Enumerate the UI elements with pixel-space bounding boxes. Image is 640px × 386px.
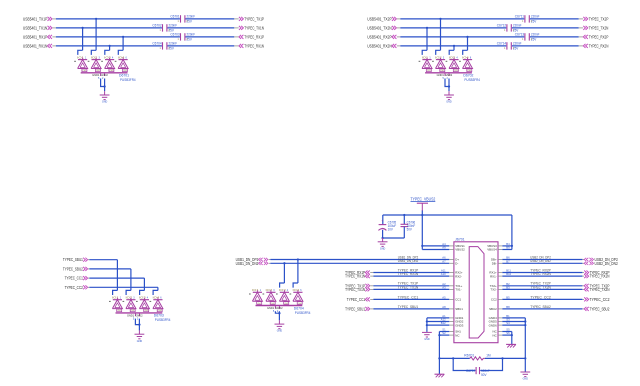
svg-text:SBU2: SBU2	[489, 307, 497, 311]
wire USB2_DN_DP2	[502, 259, 582, 261]
port TYPEC_TX2N	[582, 287, 609, 292]
svg-text:CH4: CH4	[467, 70, 471, 72]
port USB5401_RX2N	[367, 43, 400, 48]
svg-text:CH3: CH3	[284, 303, 288, 305]
ground	[422, 332, 432, 341]
svg-text:TYPEC_TX1P: TYPEC_TX1P	[244, 16, 264, 21]
svg-text:GND: GND	[424, 338, 430, 341]
svg-text:RX1-: RX1-	[490, 274, 497, 278]
esd diode array D6702 PUSB3FR4	[419, 55, 480, 82]
svg-text:TYPEC_SBU1: TYPEC_SBU1	[345, 306, 365, 311]
svg-text:GND6: GND6	[489, 323, 497, 327]
svg-text:A8: A8	[442, 305, 446, 309]
svg-text:D6704: D6704	[294, 306, 304, 310]
svg-text:CH3: CH3	[144, 310, 148, 312]
resistor R6701 1M	[464, 354, 490, 360]
svg-text:IO4: IO4	[118, 55, 125, 59]
svg-text:IO3: IO3	[104, 55, 111, 59]
port TYPEC_RX1N	[345, 274, 373, 279]
svg-text:A2: A2	[442, 282, 446, 286]
svg-text:CC1: CC1	[455, 298, 461, 302]
wire SHIELD-GND	[439, 357, 525, 370]
port TYPEC_CC1	[65, 276, 90, 281]
net label TYPEC_CC1	[398, 295, 419, 299]
wire TYPEC_SBU2	[89, 268, 130, 270]
svg-text:GND: GND	[446, 101, 452, 104]
capacitor C6701 220nF 25V	[170, 14, 195, 23]
svg-text:TYPEC_RX1N: TYPEC_RX1N	[244, 43, 264, 48]
svg-text:IO2: IO2	[435, 55, 442, 59]
ground	[275, 320, 285, 332]
port USB1_DN_DN2	[236, 261, 271, 266]
svg-text:TYPEC_TX2P: TYPEC_TX2P	[589, 16, 609, 21]
svg-text:IO3: IO3	[449, 55, 456, 59]
wire TYPEC_TX1P	[373, 285, 449, 287]
svg-text:C6704: C6704	[152, 41, 161, 45]
svg-text:A9: A9	[442, 246, 446, 250]
svg-text:USB5401_TX1N: USB5401_TX1N	[23, 25, 47, 30]
esd diode array D6704 PUSB3FR4	[249, 288, 310, 315]
capacitor C6703 220nF 25V	[170, 32, 195, 41]
svg-text:C6702: C6702	[152, 23, 161, 27]
wire GND right bus	[502, 318, 526, 372]
svg-text:TYPEC_CC1: TYPEC_CC1	[347, 297, 366, 302]
wire	[436, 19, 441, 55]
svg-text:GND: GND	[102, 101, 108, 104]
wire	[403, 227, 405, 238]
svg-text:A3: A3	[442, 286, 446, 290]
wire SHIELD	[438, 332, 449, 374]
svg-text:TYPEC_SBU1: TYPEC_SBU1	[63, 257, 83, 262]
svg-text:B6: B6	[506, 256, 510, 260]
svg-text:C6714: C6714	[497, 41, 506, 45]
svg-text:B4: B4	[506, 242, 510, 246]
svg-text:C6712: C6712	[497, 23, 506, 27]
svg-text:IO2: IO2	[266, 288, 273, 292]
net label TYPEC_TX1P	[398, 282, 419, 286]
svg-text:C6713: C6713	[515, 32, 524, 36]
port TYPEC_RX1N	[234, 43, 264, 48]
ground	[378, 238, 388, 250]
svg-text:220nF: 220nF	[169, 23, 178, 27]
svg-text:NC: NC	[455, 333, 459, 337]
wire	[101, 79, 106, 92]
wire	[153, 287, 158, 295]
svg-text:USB1_DN_DN2: USB1_DN_DN2	[398, 259, 419, 263]
svg-text:USB5401_TX2P: USB5401_TX2P	[367, 16, 392, 21]
port USB1_DN_DP2	[236, 257, 271, 262]
net label TYPEC_TX2N	[530, 285, 551, 289]
net label USB1_DN_DP2	[398, 255, 419, 259]
svg-text:CH2: CH2	[440, 70, 444, 72]
net label USB2_DN_DP2	[530, 255, 551, 259]
port USB5401_TX1P	[23, 16, 56, 21]
svg-text:IO4: IO4	[293, 288, 300, 292]
wire USB5401_TX2N	[400, 27, 578, 29]
svg-text:USB5401_RX1N: USB5401_RX1N	[23, 43, 47, 48]
wire USB5401_RX1N	[56, 45, 234, 47]
port TYPEC_RX2N	[582, 274, 609, 279]
wire	[422, 28, 427, 55]
wire TYPEC_CC1	[89, 277, 144, 279]
svg-text:IO2: IO2	[91, 55, 98, 59]
svg-text:IO3: IO3	[279, 288, 286, 292]
svg-text:DB-: DB-	[492, 262, 497, 266]
port TYPEC_TX1N	[234, 25, 264, 30]
svg-text:C6703: C6703	[170, 32, 179, 36]
svg-text:CH1: CH1	[257, 303, 261, 305]
capacitor C6705 100uF	[378, 219, 396, 231]
wire USB2_DN_DN2	[502, 262, 582, 264]
capacitor C6702 220nF 25V	[152, 23, 177, 32]
svg-text:TYPEC_TX1N: TYPEC_TX1N	[244, 25, 264, 30]
wire	[91, 19, 96, 55]
svg-text:CH1: CH1	[427, 70, 431, 72]
wire	[118, 37, 123, 55]
svg-text:PUSB3FR4: PUSB3FR4	[155, 318, 171, 322]
net label TYPEC_RX1N	[398, 272, 419, 276]
port USB5401_RX1N	[23, 43, 56, 48]
svg-text:TYPEC_SBU2: TYPEC_SBU2	[590, 306, 610, 311]
port USB5401_RX2P	[367, 34, 400, 39]
svg-text:USB5401_RX2P: USB5401_RX2P	[367, 34, 391, 39]
capacitor C6714 220nF 25V	[497, 41, 522, 50]
wire USB5401_RX1P	[56, 36, 234, 38]
wire TYPEC_TX2P	[502, 285, 582, 287]
port TYPEC_SBU1	[345, 306, 373, 311]
wire TYPEC_RX2P	[502, 272, 582, 274]
svg-text:TYPEC_RX1N: TYPEC_RX1N	[345, 274, 365, 279]
wire	[445, 79, 450, 92]
svg-text:GND: GND	[380, 247, 386, 250]
ground	[100, 91, 110, 103]
wire TYPEC_CC2	[502, 298, 582, 300]
svg-text:B5: B5	[506, 296, 510, 300]
svg-text:220nF: 220nF	[513, 23, 522, 27]
port USB5401_TX1N	[23, 25, 56, 30]
connector J6701 USB Type-C	[441, 238, 512, 343]
port TYPEC_TX1P	[345, 283, 373, 288]
svg-text:TX2-: TX2-	[490, 288, 496, 292]
wire TYPEC_RX1P	[373, 272, 449, 274]
svg-text:USB1_DN_DN2: USB1_DN_DN2	[236, 261, 259, 266]
wire	[105, 46, 110, 55]
port TYPEC_RX2N	[579, 43, 609, 48]
wire	[78, 28, 83, 55]
port USB5401_TX2N	[367, 25, 400, 30]
svg-text:220nF: 220nF	[531, 14, 540, 18]
svg-text:IO2: IO2	[126, 296, 133, 300]
svg-text:USB5401_RX1P: USB5401_RX1P	[23, 34, 47, 39]
svg-text:IO3: IO3	[139, 296, 146, 300]
wire GND left bus	[426, 318, 450, 332]
svg-text:R6701: R6701	[464, 354, 474, 358]
wire	[280, 263, 285, 287]
svg-text:GND3: GND3	[455, 323, 463, 327]
port TYPEC_SBU2	[582, 306, 610, 311]
wire TYPEC_CC2	[89, 286, 157, 288]
svg-text:CH2: CH2	[96, 70, 100, 72]
port TYPEC_CC2	[65, 285, 90, 290]
svg-text:PUSB3FR4: PUSB3FR4	[295, 311, 311, 315]
svg-text:IO1: IO1	[112, 296, 119, 300]
port TYPEC_RX2P	[582, 270, 609, 275]
svg-text:D-: D-	[455, 262, 458, 266]
svg-text:CC2: CC2	[491, 298, 497, 302]
svg-text:CH1: CH1	[83, 70, 87, 72]
port USB2_DN_DP2	[582, 257, 618, 262]
port TYPEC_TX2N	[579, 25, 609, 30]
svg-text:220nF: 220nF	[187, 32, 196, 36]
svg-text:B10: B10	[506, 272, 511, 276]
net label TYPEC_RX2N	[530, 272, 551, 276]
svg-text:GND: GND	[277, 330, 283, 333]
wire USB1_DN_DN2	[270, 262, 449, 264]
svg-text:D6701: D6701	[119, 74, 129, 78]
svg-text:B11: B11	[506, 269, 511, 273]
wire	[381, 230, 404, 239]
svg-text:D6702: D6702	[463, 74, 473, 78]
svg-text:D6703: D6703	[154, 314, 164, 318]
svg-text:C6711: C6711	[515, 14, 524, 18]
port USB5401_RX1P	[23, 34, 56, 39]
ground	[444, 91, 454, 103]
net label USB1_DN_DN2	[398, 259, 419, 263]
svg-text:B3: B3	[506, 286, 510, 290]
svg-text:B7: B7	[506, 259, 510, 263]
svg-text:TYPEC_CC2: TYPEC_CC2	[530, 295, 551, 299]
capacitor C6713 220nF 25V	[515, 32, 540, 41]
svg-text:PUSB3FR4: PUSB3FR4	[120, 78, 136, 82]
svg-text:USB2_DN_DN2: USB2_DN_DN2	[595, 261, 619, 266]
svg-text:USB5401_TX2N: USB5401_TX2N	[367, 25, 391, 30]
esd diode array D6703 PUSB3FR4	[109, 296, 170, 323]
chassis ground	[435, 374, 445, 377]
svg-text:CH2: CH2	[131, 310, 135, 312]
svg-text:CH4: CH4	[123, 70, 127, 72]
svg-text:220nF: 220nF	[513, 41, 522, 45]
svg-text:50V: 50V	[407, 228, 413, 232]
wire TYPEC_VBUS2 rail	[383, 211, 513, 250]
svg-text:GND: GND	[137, 340, 143, 343]
svg-text:TYPEC_TX2N: TYPEC_TX2N	[590, 287, 610, 292]
svg-text:TYPEC_CC1: TYPEC_CC1	[65, 276, 84, 281]
port TYPEC_RX1P	[234, 34, 264, 39]
svg-text:CH2: CH2	[271, 303, 275, 305]
svg-text:TYPEC_TX2N: TYPEC_TX2N	[589, 25, 609, 30]
wire USB5401_TX2P	[400, 18, 578, 20]
port TYPEC_RX2P	[579, 34, 609, 39]
svg-text:TYPEC_VBUS2: TYPEC_VBUS2	[411, 196, 436, 201]
svg-text:TX1-: TX1-	[455, 288, 461, 292]
svg-text:TYPEC_SBU2: TYPEC_SBU2	[63, 266, 83, 271]
power TYPEC_VBUS2	[411, 196, 436, 211]
svg-text:IO1: IO1	[422, 55, 429, 59]
wire USB5401_RX2P	[400, 36, 578, 38]
wire USB1_DN_DP2	[270, 258, 449, 260]
svg-text:TYPEC_CC2: TYPEC_CC2	[65, 285, 84, 290]
svg-text:220nF: 220nF	[169, 41, 178, 45]
wire TYPEC_TX2N	[502, 288, 582, 290]
svg-text:B9: B9	[506, 246, 510, 250]
svg-text:USB5401_RX2N: USB5401_RX2N	[367, 43, 391, 48]
svg-text:CH3: CH3	[454, 70, 458, 72]
capacitor C6712 220nF 25V	[497, 23, 522, 32]
net label USB2_DN_DN2	[530, 259, 551, 263]
net label TYPEC_SBU2	[530, 305, 551, 309]
net label TYPEC_TX1N	[398, 285, 419, 289]
svg-text:50V: 50V	[481, 373, 487, 377]
svg-text:TYPEC_TX1N: TYPEC_TX1N	[345, 287, 365, 292]
svg-text:C6701: C6701	[170, 14, 179, 18]
ground	[135, 330, 145, 342]
wire USB5401_RX2N	[400, 45, 578, 47]
port TYPEC_TX2P	[582, 283, 609, 288]
svg-text:USB5401_TX1P: USB5401_TX1P	[23, 16, 48, 21]
svg-text:B8: B8	[506, 305, 510, 309]
net label TYPEC_TX2P	[530, 282, 551, 286]
svg-text:+: +	[381, 219, 383, 223]
svg-text:CH3: CH3	[110, 70, 114, 72]
ground	[520, 372, 530, 381]
svg-text:C6707: C6707	[466, 369, 475, 373]
port TYPEC_CC2	[582, 297, 610, 302]
svg-text:VBUS2: VBUS2	[455, 248, 465, 252]
svg-text:B2: B2	[506, 282, 510, 286]
svg-text:CH4: CH4	[298, 303, 302, 305]
wire TYPEC_RX2N	[502, 275, 582, 277]
net label TYPEC_SBU1	[398, 305, 419, 309]
wire USB5401_TX1P	[56, 18, 234, 20]
svg-text:A6: A6	[442, 256, 446, 260]
port TYPEC_RX1P	[345, 270, 373, 275]
capacitor C6704 220nF 25V	[152, 41, 177, 50]
wire USB5401_TX1N	[56, 27, 234, 29]
wire TYPEC_SBU1	[373, 308, 449, 310]
wire TYPEC_TX1N	[373, 288, 449, 290]
port USB5401_TX2P	[367, 16, 400, 21]
port TYPEC_TX1N	[345, 287, 373, 292]
svg-text:SBU1: SBU1	[455, 307, 463, 311]
svg-text:TYPEC_RX1P: TYPEC_RX1P	[244, 34, 264, 39]
capacitor C6707 100nF	[466, 367, 490, 377]
svg-text:VBUS4: VBUS4	[487, 248, 497, 252]
wire	[113, 260, 118, 295]
svg-text:CH4: CH4	[158, 310, 162, 312]
svg-text:A4: A4	[442, 242, 446, 246]
svg-text:IO1: IO1	[77, 55, 84, 59]
chassis ground	[506, 344, 516, 347]
svg-text:GND: GND	[523, 378, 529, 381]
wire	[463, 37, 468, 55]
svg-text:220nF: 220nF	[531, 32, 540, 36]
port TYPEC_CC1	[347, 297, 374, 302]
wire	[140, 278, 145, 295]
svg-text:TYPEC_RX2N: TYPEC_RX2N	[590, 274, 610, 279]
svg-text:J6701: J6701	[455, 238, 465, 242]
svg-text:RX2-: RX2-	[455, 274, 462, 278]
port TYPEC_SBU1	[63, 257, 90, 262]
svg-text:IO1: IO1	[252, 288, 259, 292]
port TYPEC_SBU2	[63, 266, 90, 271]
wire TYPEC_CC1	[373, 298, 449, 300]
wire	[449, 46, 454, 55]
svg-text:A11: A11	[441, 269, 446, 273]
wire TYPEC_SBU1	[89, 259, 117, 261]
svg-text:TYPEC_RX2P: TYPEC_RX2P	[589, 34, 609, 39]
svg-text:NC: NC	[493, 333, 497, 337]
port TYPEC_TX1P	[234, 16, 264, 21]
svg-text:CH1: CH1	[117, 310, 121, 312]
wire	[275, 311, 280, 320]
wire	[293, 260, 298, 288]
net label TYPEC_CC2	[530, 295, 551, 299]
net label TYPEC_RX1P	[398, 268, 419, 272]
capacitor C6711 220nF 25V	[515, 14, 540, 23]
svg-text:TYPEC_SBU1: TYPEC_SBU1	[398, 305, 419, 309]
svg-text:10V: 10V	[388, 228, 394, 232]
svg-text:TYPEC_CC2: TYPEC_CC2	[590, 297, 610, 302]
svg-text:TYPEC_CC1: TYPEC_CC1	[398, 295, 419, 299]
net label TYPEC_RX2P	[530, 268, 551, 272]
svg-text:A7: A7	[442, 259, 446, 263]
svg-text:PUSB3FR4: PUSB3FR4	[464, 78, 480, 82]
wire TYPEC_RX1N	[373, 275, 449, 277]
svg-text:TYPEC_SBU2: TYPEC_SBU2	[530, 305, 551, 309]
svg-text:A10: A10	[441, 272, 446, 276]
svg-text:A5: A5	[442, 296, 446, 300]
wire	[502, 332, 513, 345]
svg-text:IO4: IO4	[153, 296, 160, 300]
svg-text:220nF: 220nF	[187, 14, 196, 18]
wire TYPEC_SBU2	[502, 308, 582, 310]
esd diode array D6701 PUSB3FR4	[74, 55, 135, 82]
port TYPEC_TX2P	[579, 16, 609, 21]
wire	[135, 319, 140, 331]
capacitor C6706 100nF	[401, 220, 416, 231]
wire	[126, 269, 131, 295]
svg-text:1M: 1M	[486, 354, 490, 358]
port USB2_DN_DN2	[582, 261, 618, 266]
svg-text:IO4: IO4	[462, 55, 469, 59]
svg-text:TYPEC_RX2N: TYPEC_RX2N	[589, 43, 609, 48]
